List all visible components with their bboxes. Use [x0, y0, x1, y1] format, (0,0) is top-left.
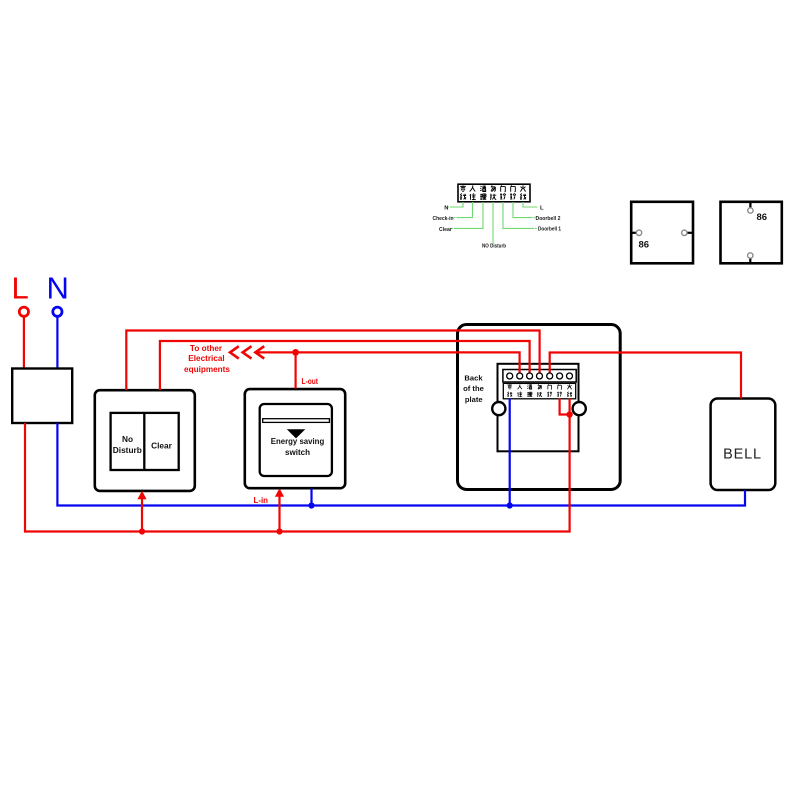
- plate frame: [458, 325, 621, 490]
- wire N from breaker to bell run: [57, 423, 745, 506]
- wire C check-in feed: [255, 352, 519, 373]
- green leader Clear: [451, 202, 483, 228]
- svg-text:BELL: BELL: [723, 447, 762, 463]
- terminal label box: [503, 383, 575, 398]
- svg-text:N: N: [444, 205, 448, 211]
- junction red t6/t7: [566, 411, 572, 417]
- arrow into no-disturb switch: [137, 491, 146, 532]
- terminal strip: [503, 370, 576, 383]
- svg-text:switch: switch: [285, 447, 310, 457]
- svg-text:Back: Back: [464, 373, 483, 382]
- svg-text:Electrical: Electrical: [188, 354, 224, 363]
- indicator triangle: [287, 429, 306, 438]
- switch frame: [245, 389, 345, 488]
- terminal screws: [507, 373, 573, 379]
- svg-text:plate: plate: [465, 395, 483, 404]
- junction blue plate: [507, 502, 513, 508]
- green leader L: [523, 202, 538, 207]
- rocker box: [111, 413, 179, 470]
- svg-text:L-out: L-out: [302, 377, 319, 386]
- wire L-out energy switch: [295, 352, 297, 388]
- switch frame: [95, 390, 195, 491]
- wall box 86 horizontal: [631, 202, 693, 263]
- svg-text:L-in: L-in: [254, 496, 269, 505]
- card slot: [263, 419, 330, 423]
- svg-text:Doorbell 1: Doorbell 1: [538, 227, 562, 233]
- breaker box: [12, 369, 72, 424]
- svg-text:To other: To other: [190, 344, 223, 353]
- arrow chevrons to other equipments: [230, 346, 264, 358]
- junction red no-disturb: [139, 528, 145, 534]
- card module: [260, 404, 332, 476]
- svg-text:Clear: Clear: [439, 227, 452, 233]
- svg-text:N: N: [47, 271, 69, 306]
- svg-text:Energy saving: Energy saving: [271, 436, 325, 446]
- green leader Doorbell 2: [513, 202, 535, 218]
- svg-text:L: L: [12, 271, 29, 306]
- green leader N: [447, 202, 463, 207]
- wire L from breaker along bottom to live terminal: [25, 399, 570, 532]
- green leader Check-in: [454, 202, 473, 218]
- svg-text:L: L: [540, 205, 544, 211]
- wall box 86 vertical: [721, 202, 782, 263]
- junction blue energy: [308, 502, 314, 508]
- module body: [498, 364, 579, 452]
- legend chars row 1: 零入清勿门门火: [460, 185, 525, 192]
- green leader Doorbell 1: [503, 202, 537, 228]
- junction red L-in: [276, 528, 282, 534]
- mounting hole right: [573, 402, 586, 415]
- wire N stub energy switch: [310, 489, 312, 506]
- mounting hole left: [492, 402, 505, 415]
- rocker divider: [143, 413, 145, 470]
- svg-text:Clear: Clear: [151, 440, 173, 450]
- label Back of the plate: [463, 373, 484, 404]
- svg-text:86: 86: [639, 240, 650, 251]
- svg-text:Doorbell 2: Doorbell 2: [536, 216, 561, 222]
- label To other Electrical equipments: [184, 344, 230, 374]
- svg-text:of the: of the: [463, 384, 484, 393]
- svg-text:No: No: [122, 434, 133, 444]
- svg-text:Disturb: Disturb: [113, 445, 142, 455]
- legend chars row 2: 线住理扰铃铃线: [460, 193, 526, 200]
- junction red L-out: [292, 349, 299, 356]
- green leader NO Disturb: [492, 202, 494, 244]
- terminal circle L: [19, 307, 28, 316]
- wire N drop to breaker: [56, 316, 58, 368]
- svg-text:Check-in: Check-in: [433, 216, 454, 222]
- plate chars row 2: 线住理扰铃铃线: [507, 392, 572, 397]
- wire N plate drop: [509, 399, 511, 506]
- wire A no-disturb to t4: [126, 331, 539, 391]
- svg-text:86: 86: [757, 212, 768, 223]
- wire L drop to breaker: [23, 316, 25, 368]
- wire B clear to t3: [160, 341, 530, 390]
- bell box: [711, 399, 776, 491]
- svg-text:NO Disturb: NO Disturb: [482, 243, 506, 249]
- svg-text:equipments: equipments: [184, 365, 230, 374]
- wire doorbell1 t5 to bell: [550, 353, 741, 399]
- terminal block legend box: [458, 184, 530, 202]
- arrow into energy switch: [275, 488, 284, 531]
- terminal circle N: [53, 307, 62, 316]
- wire doorbell2 branch t6: [560, 399, 570, 415]
- plate chars row 1: 零入清勿门门火: [507, 384, 571, 389]
